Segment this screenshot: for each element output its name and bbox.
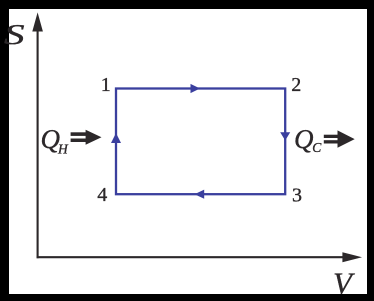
svg-text:4: 4 <box>97 184 107 206</box>
heat input arrow QH (double-shaft arrow pointing right) <box>71 130 102 145</box>
border strip bottom <box>0 294 374 301</box>
svg-text:3: 3 <box>292 184 302 206</box>
axis V (horizontal, arrow right) <box>37 252 362 262</box>
svg-text:V: V <box>333 266 355 301</box>
label Q_H <box>41 124 70 157</box>
svg-text:S: S <box>4 18 25 51</box>
border strip right <box>367 0 374 301</box>
cycle rectangle 1-2-3-4 <box>116 89 285 195</box>
border strip top <box>0 0 374 9</box>
axis label S <box>4 18 25 51</box>
svg-text:H: H <box>57 142 69 157</box>
arrow on right edge (2 to 3, downward) <box>280 132 290 140</box>
svg-text:Q: Q <box>294 124 314 154</box>
border strip left <box>0 0 9 301</box>
arrow on top edge (1 to 2, rightward) <box>191 84 201 93</box>
svg-text:1: 1 <box>101 74 111 96</box>
arrow on bottom edge (3 to 4, leftward) <box>195 190 205 199</box>
heat output arrow QC (double-shaft arrow pointing right) <box>324 130 355 147</box>
svg-text:2: 2 <box>291 74 301 96</box>
svg-text:C: C <box>312 140 322 155</box>
arrow on left edge (4 to 1, upward) <box>111 133 121 143</box>
label Q_C <box>294 124 322 155</box>
axis S (vertical, arrow up) <box>32 12 43 258</box>
